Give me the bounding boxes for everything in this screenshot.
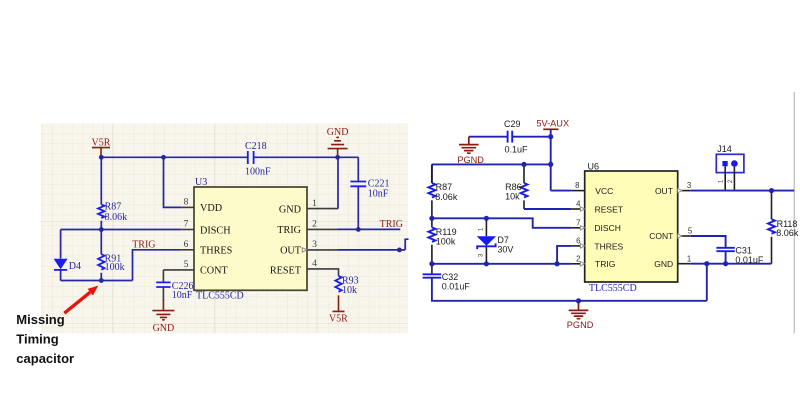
svg-text:RESET: RESET bbox=[595, 204, 623, 214]
svg-text:PGND: PGND bbox=[567, 320, 594, 330]
svg-text:R119: R119 bbox=[436, 227, 457, 237]
wire C221 branch down bbox=[357, 157, 359, 229]
svg-text:100k: 100k bbox=[105, 262, 125, 273]
svg-text:capacitor: capacitor bbox=[16, 351, 74, 366]
svg-text:6: 6 bbox=[576, 237, 580, 246]
U3 pin 6 THRES bbox=[181, 240, 232, 257]
svg-text:4: 4 bbox=[312, 259, 317, 269]
wire VCC pin bbox=[551, 190, 572, 192]
svg-text:VDD: VDD bbox=[200, 203, 222, 214]
svg-text:THRES: THRES bbox=[594, 241, 623, 251]
svg-text:TLC555CD: TLC555CD bbox=[196, 291, 244, 302]
wire R87 to junction bbox=[100, 221, 102, 230]
svg-text:U3: U3 bbox=[195, 177, 207, 188]
svg-text:C218: C218 bbox=[245, 141, 267, 152]
svg-text:V5R: V5R bbox=[329, 314, 348, 325]
capacitor C221 bbox=[350, 179, 389, 200]
callout text bbox=[16, 312, 74, 366]
svg-text:7: 7 bbox=[184, 220, 189, 230]
U6 pin 6 THRES bbox=[571, 237, 623, 252]
svg-text:10k: 10k bbox=[505, 192, 520, 202]
svg-text:GND: GND bbox=[654, 259, 673, 269]
svg-text:Timing: Timing bbox=[16, 332, 58, 347]
IC U6 bbox=[585, 161, 678, 293]
U3 pin 8 VDD bbox=[181, 198, 222, 215]
power port 5V-AUX bbox=[536, 119, 569, 130]
U3 pin 7 DISCH bbox=[181, 220, 231, 237]
wire top rail right of C218 bbox=[254, 156, 358, 158]
svg-text:RESET: RESET bbox=[270, 265, 302, 276]
svg-text:8: 8 bbox=[184, 198, 189, 208]
svg-text:OUT: OUT bbox=[655, 186, 673, 196]
wire GND down to bottom rail bbox=[706, 264, 708, 301]
svg-text:Missing: Missing bbox=[16, 312, 64, 327]
wire top rail left of C218 bbox=[101, 156, 247, 158]
U3 pin 1 GND bbox=[279, 199, 338, 216]
wire pin2 TRIG out bbox=[337, 228, 400, 230]
svg-text:10nF: 10nF bbox=[368, 189, 389, 200]
svg-text:TRIG: TRIG bbox=[595, 259, 615, 269]
wire DISCH rail bbox=[432, 218, 571, 228]
svg-text:1: 1 bbox=[312, 199, 317, 209]
svg-text:0.01uF: 0.01uF bbox=[735, 255, 764, 265]
svg-text:7: 7 bbox=[576, 218, 580, 227]
svg-text:TLC555CD: TLC555CD bbox=[589, 283, 637, 294]
resistor R86 bbox=[505, 164, 527, 209]
U6 pin 3 OUT bbox=[655, 181, 691, 196]
wire OUT row bbox=[691, 190, 794, 192]
wire pin3 OUT out bbox=[337, 239, 408, 250]
capacitor C226 bbox=[156, 281, 193, 301]
ground PGND (top) bbox=[457, 137, 484, 165]
wire VCC rail bbox=[432, 164, 551, 183]
capacitor C218 bbox=[245, 141, 271, 178]
wire CONT branch bbox=[163, 270, 181, 282]
wire R91 to bottom bbox=[100, 273, 102, 281]
svg-text:J14: J14 bbox=[717, 144, 732, 154]
U3 pin 3 OUT bbox=[280, 240, 337, 257]
junction dots right bbox=[548, 134, 553, 139]
svg-text:5: 5 bbox=[184, 260, 189, 270]
svg-text:DISCH: DISCH bbox=[200, 225, 231, 236]
wire pin1 up to rail bbox=[337, 157, 339, 208]
diode D4 bbox=[54, 230, 81, 281]
svg-text:GND: GND bbox=[153, 323, 175, 334]
wire GND row bbox=[691, 263, 772, 265]
svg-text:DISCH: DISCH bbox=[594, 223, 620, 233]
U6 pin 5 CONT bbox=[649, 227, 693, 242]
ANNOTATION bbox=[16, 286, 98, 367]
connector J14 bbox=[716, 144, 744, 190]
junction dots left bbox=[99, 155, 104, 160]
svg-text:100nF: 100nF bbox=[245, 166, 271, 177]
U6 pin 1 GND bbox=[654, 254, 691, 269]
wire CONT branch bbox=[691, 236, 726, 248]
svg-text:2: 2 bbox=[727, 179, 734, 183]
wire C29 left bbox=[469, 136, 508, 138]
svg-text:3: 3 bbox=[312, 240, 317, 250]
svg-text:CONT: CONT bbox=[649, 231, 673, 241]
svg-text:8: 8 bbox=[575, 181, 579, 190]
svg-text:1: 1 bbox=[478, 227, 485, 231]
power port V5R (bottom) bbox=[329, 295, 348, 324]
capacitor C32 bbox=[423, 264, 471, 292]
svg-text:U6: U6 bbox=[588, 161, 600, 171]
wire C31 to GND row bbox=[725, 251, 727, 264]
svg-text:TRIG: TRIG bbox=[277, 225, 301, 236]
U6 pin 7 DISCH bbox=[571, 218, 621, 233]
resistor R87 (right) bbox=[428, 164, 457, 218]
wire TRIG up branch bbox=[133, 250, 182, 281]
wire C29 right bbox=[512, 136, 551, 138]
svg-text:C29: C29 bbox=[504, 119, 521, 129]
power port V5R (top) bbox=[92, 138, 111, 158]
svg-text:D4: D4 bbox=[69, 261, 81, 272]
wire R86 to RESET bbox=[524, 208, 571, 210]
svg-text:5: 5 bbox=[688, 227, 693, 236]
svg-text:8.06k: 8.06k bbox=[435, 192, 458, 202]
svg-text:30V: 30V bbox=[497, 245, 513, 255]
svg-text:PGND: PGND bbox=[457, 155, 484, 165]
svg-text:1: 1 bbox=[687, 254, 691, 263]
U3 pin 5 CONT bbox=[181, 260, 228, 277]
resistor R91 bbox=[98, 253, 125, 273]
svg-text:GND: GND bbox=[327, 127, 349, 138]
wire junction to R91 bbox=[100, 230, 102, 255]
capacitor C29 bbox=[504, 119, 528, 155]
svg-text:1: 1 bbox=[718, 179, 725, 183]
svg-text:3: 3 bbox=[478, 253, 485, 257]
U3 pin 4 RESET bbox=[270, 259, 339, 276]
RIGHT CIRCUIT bbox=[423, 92, 799, 333]
svg-text:GND: GND bbox=[279, 204, 301, 215]
svg-text:6: 6 bbox=[184, 240, 189, 250]
resistor R119 bbox=[428, 218, 456, 263]
svg-text:0.1uF: 0.1uF bbox=[505, 145, 529, 155]
svg-text:8.06k: 8.06k bbox=[776, 228, 799, 238]
IC U3 bbox=[194, 177, 307, 302]
U6 pin 2 TRIG bbox=[571, 254, 615, 269]
U6 pin 4 RESET bbox=[571, 200, 623, 215]
U3 pin 2 TRIG bbox=[277, 220, 337, 237]
U6 pin 8 VCC bbox=[571, 181, 613, 196]
svg-text:3: 3 bbox=[687, 181, 691, 190]
diode D7 bbox=[477, 218, 514, 263]
svg-text:10k: 10k bbox=[342, 285, 357, 296]
svg-text:100k: 100k bbox=[436, 237, 456, 247]
wire bottom row bbox=[61, 280, 133, 282]
svg-text:THRES: THRES bbox=[200, 246, 233, 257]
LEFT CIRCUIT bbox=[54, 127, 409, 334]
svg-text:OUT: OUT bbox=[280, 246, 302, 257]
capacitor C31 bbox=[716, 245, 764, 264]
svg-text:CONT: CONT bbox=[200, 266, 229, 277]
wire 5V-AUX vertical bbox=[550, 129, 552, 190]
wire TRIG row bbox=[432, 263, 571, 265]
svg-text:2: 2 bbox=[576, 254, 580, 263]
svg-text:TRIG: TRIG bbox=[132, 240, 155, 251]
svg-text:0.01uF: 0.01uF bbox=[442, 282, 471, 292]
wire THRES branch bbox=[557, 246, 571, 264]
ground PGND (bottom) bbox=[567, 301, 594, 330]
wire VDD branch bbox=[164, 157, 182, 207]
svg-text:R87: R87 bbox=[436, 182, 453, 192]
svg-text:TRIG: TRIG bbox=[380, 219, 403, 230]
resistor R118 bbox=[768, 191, 799, 264]
wire DISCH row bbox=[61, 229, 182, 231]
screenshot border line bbox=[793, 92, 795, 333]
ground GND (bottom) bbox=[152, 287, 174, 334]
ground GND (top) bbox=[327, 127, 349, 157]
red arrow bbox=[64, 286, 98, 314]
wire V5R to R87 bbox=[100, 157, 102, 204]
wire C32 to bottom rail bbox=[432, 278, 707, 301]
svg-text:10nF: 10nF bbox=[172, 290, 193, 301]
resistor R93 bbox=[335, 276, 358, 297]
svg-text:2: 2 bbox=[312, 220, 317, 230]
svg-text:5V-AUX: 5V-AUX bbox=[536, 119, 569, 129]
svg-text:VCC: VCC bbox=[595, 186, 613, 196]
resistor R87 bbox=[98, 202, 127, 223]
svg-text:8.06k: 8.06k bbox=[105, 212, 128, 223]
